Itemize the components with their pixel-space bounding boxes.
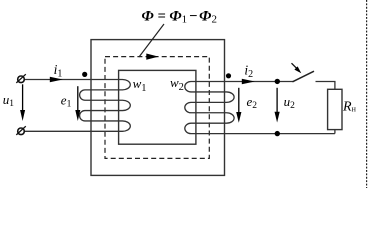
current i1 arrowhead (50, 77, 63, 82)
current i2 arrowhead (242, 79, 255, 84)
node A (top junction dot) (275, 79, 280, 84)
flux direction arrowhead (146, 54, 158, 60)
emf e2 arrow (238, 88, 240, 114)
switch S blade (293, 71, 315, 82)
transformer core T1 inner contour (window) (119, 70, 196, 144)
svg-text:Ф = Ф1−Ф2: Ф = Ф1−Ф2 (142, 8, 217, 25)
polarity dot w2 (226, 73, 231, 78)
polarity dot w1 (82, 72, 87, 77)
wire (resistor bottom stub) (334, 130, 336, 134)
terminal X2 (bottom-left, circle with slash) (18, 128, 25, 135)
wire (switch right contact to load) (316, 82, 335, 90)
page border (right dotted rule) (366, 0, 368, 188)
winding w2 (secondary, on right leg) (185, 82, 335, 134)
winding w1 (primary, on left leg) (25, 80, 131, 132)
voltage u2 arrow (276, 88, 278, 114)
flux path (dashed) (105, 57, 209, 159)
switch action arrow (292, 63, 298, 68)
leader line from flux label (139, 24, 164, 57)
node B (bottom junction dot) (275, 131, 280, 136)
voltage u1 arrow (22, 84, 24, 111)
transformer core T1 outer contour (91, 40, 225, 176)
resistor Rn body (328, 89, 342, 129)
terminal X1 (top-left, circle with slash) (18, 76, 25, 83)
emf e1 arrow (77, 86, 79, 111)
